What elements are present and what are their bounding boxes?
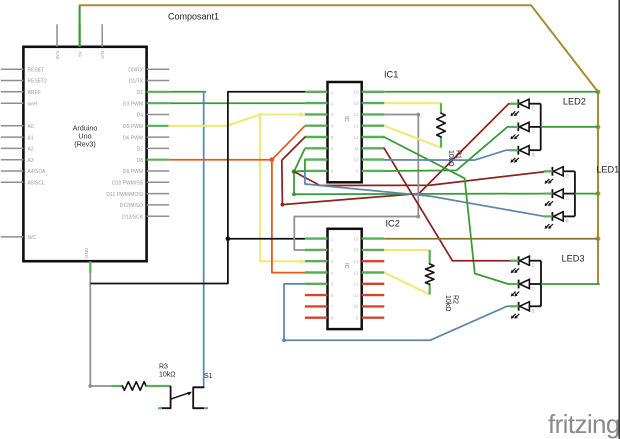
power bus 5V (dark yellow) <box>80 5 598 284</box>
Arduino Uno module U1 (body) <box>23 47 146 261</box>
junction node black at IC2 pin1 row <box>226 236 231 241</box>
wire 5V riser (green) <box>79 6 81 47</box>
svg-text:D2: D2 <box>531 106 535 111</box>
svg-text:fritzing: fritzing <box>548 409 620 439</box>
label Composant1 <box>168 12 219 22</box>
svg-text:14: 14 <box>354 112 359 117</box>
LED3 group LED B0 <box>510 302 541 319</box>
svg-text:A3: A3 <box>28 158 34 164</box>
svg-text:10: 10 <box>354 304 359 309</box>
svg-text:C1: C1 <box>565 196 569 201</box>
wire GND to R3 (grey) <box>90 273 111 387</box>
svg-text:RESET: RESET <box>28 68 45 74</box>
svg-text:C1: C1 <box>531 287 535 292</box>
junction bus-LED2 top row <box>596 90 601 95</box>
svg-text:10kΩ: 10kΩ <box>447 150 454 167</box>
svg-text:15: 15 <box>354 248 359 253</box>
bendpoint maroon <box>281 203 285 207</box>
svg-text:D0/RX: D0/RX <box>128 68 143 74</box>
svg-text:D1/TX: D1/TX <box>129 79 144 85</box>
wire IC1 pin9 to LED2 mid (green) <box>384 127 517 171</box>
svg-text:ioref: ioref <box>28 101 38 107</box>
right image border <box>618 0 620 439</box>
svg-text:10kΩ: 10kΩ <box>159 372 176 379</box>
wire branch to IC2 pin1 (black) <box>228 238 305 240</box>
svg-text:A1: A1 <box>28 135 34 141</box>
svg-text:13: 13 <box>354 124 359 129</box>
op IC1 (16-pin) <box>305 70 398 183</box>
wire IC1 pin5 from maroon riser <box>282 137 305 205</box>
junction node D8 (orange dot) <box>270 157 275 162</box>
wire IC1 pin7/pin8 to node A (green) <box>294 160 305 172</box>
wire D5 PWM to IC1 pin3 (yellow) <box>169 115 305 126</box>
svg-text:D7: D7 <box>137 147 144 153</box>
wire D8 to junction (orange) <box>169 159 272 161</box>
svg-text:R1: R1 <box>455 150 462 159</box>
wire IC1 pin13 to R1 bottom (yellow diagonal) <box>384 126 441 148</box>
svg-text:A5/SCL: A5/SCL <box>28 181 45 187</box>
fritzing watermark <box>548 409 620 439</box>
resistor R1 leads (green) <box>440 103 442 147</box>
wire LED3 mid to bus (green) <box>541 283 600 285</box>
svg-text:10: 10 <box>354 157 359 162</box>
LED3 group LED D2 <box>510 256 541 273</box>
svg-text:13: 13 <box>354 270 359 275</box>
svg-text:LED1: LED1 <box>596 165 619 175</box>
wire junction to IC1 pin4 (orange diagonal) <box>272 126 305 160</box>
wire D3 PWM to IC1 pin2 (green) <box>169 102 305 104</box>
svg-text:(Rev3): (Rev3) <box>74 140 96 149</box>
svg-text:GND: GND <box>84 247 89 258</box>
bendpoint grey 2 <box>416 215 420 219</box>
LED1 group LED B0 <box>544 212 575 229</box>
svg-text:IC1: IC1 <box>384 70 398 80</box>
label S1 <box>204 373 213 380</box>
svg-text:IC: IC <box>343 263 349 268</box>
wire IC1 pin16 to 5V bus (green) <box>384 91 598 93</box>
LED2 group LED D2 <box>510 99 541 116</box>
label LED2 <box>563 97 586 107</box>
Arduino top pins 3V3 / 5V / VIN <box>55 24 105 59</box>
junction bus-LED1 mid <box>596 191 601 196</box>
wire node A to LED1 top (maroon) <box>294 171 554 185</box>
label R2 10k <box>444 295 459 312</box>
wire IC1 pin14 to IC2 pin2 (grey) <box>294 115 418 251</box>
svg-text:15: 15 <box>354 101 359 106</box>
wire IC2 pin5 to LED3 bottom (blue) <box>284 284 517 340</box>
resistor R3 <box>122 382 146 391</box>
svg-text:A4/SDA: A4/SDA <box>28 169 46 175</box>
wire node A to LED1 bottom (blue) <box>305 171 554 216</box>
svg-text:AREF: AREF <box>28 90 41 96</box>
wire R3 left lead (green) <box>112 385 123 387</box>
svg-text:B0: B0 <box>531 309 535 313</box>
LED2 group LED B0 <box>510 146 541 163</box>
wire IC2 pin15 to R2 top (yellow) <box>384 249 429 251</box>
LED3 group common anode bar <box>540 261 542 307</box>
LED2 group LED C1 <box>510 122 541 139</box>
svg-text:LED3: LED3 <box>562 254 585 264</box>
bendpoint GND corner <box>88 384 92 388</box>
svg-text:D3 PWM: D3 PWM <box>123 101 143 107</box>
wire D2 node to switch S1 (blue vertical) <box>193 92 203 388</box>
LED3 group LED C1 <box>510 279 541 296</box>
wire IC1 pin11 to LED3 top (maroon diagonal) <box>384 148 517 260</box>
bendpoint yellow node <box>258 113 262 117</box>
wire GND to IC1 pin1 / IC2 pin1 (black) <box>91 92 305 284</box>
svg-text:5V: 5V <box>78 50 83 57</box>
wire IC2 pin16 to bus (dark yellow) <box>384 238 598 240</box>
wire IC1 pin6 to node A (green diagonal) <box>294 148 305 171</box>
wire junction to IC2 pin4 (orange) <box>272 160 305 273</box>
svg-text:D8: D8 <box>137 158 144 164</box>
svg-text:10kΩ: 10kΩ <box>444 295 451 312</box>
wire IC1 pin10 to LED2 bottom (blue) <box>384 150 517 160</box>
svg-text:RESET2: RESET2 <box>28 79 48 85</box>
LED1 group LED D2 <box>544 167 575 184</box>
wire node to IC2 pin3 (yellow vertical) <box>260 115 305 262</box>
switch S1 right contact <box>193 387 204 408</box>
resistor R2 <box>425 264 434 284</box>
svg-text:IC: IC <box>343 116 349 121</box>
wire node A to LED1 mid (green) <box>294 172 553 195</box>
svg-text:N/C: N/C <box>28 235 37 241</box>
svg-text:3V3: 3V3 <box>55 51 60 60</box>
Arduino left pins (unconnected stubs + labels) <box>1 68 47 242</box>
svg-text:D6 PWM: D6 PWM <box>123 135 143 141</box>
Arduino right pins D0-D13 (stubs + labels) <box>106 68 169 221</box>
yellow wire arrowhead at IC1 pin3 <box>300 112 306 117</box>
Arduino GND pin (bottom) <box>84 247 90 272</box>
svg-text:LED2: LED2 <box>563 97 586 107</box>
resistor R2 leads (green) <box>429 250 431 295</box>
wire LED2 mid to bus (green) <box>541 126 598 128</box>
svg-text:D4: D4 <box>137 113 144 119</box>
svg-text:11: 11 <box>354 146 359 151</box>
IC2 (16-pin) <box>305 219 400 330</box>
node A (green junction) <box>292 169 297 174</box>
switch S1 left contact <box>160 387 170 409</box>
svg-text:Composant1: Composant1 <box>168 12 219 22</box>
bendpoint blue <box>282 338 286 342</box>
resistor R1 <box>437 113 446 137</box>
svg-text:D10 PWM/SS: D10 PWM/SS <box>112 181 144 187</box>
svg-text:D12/MISO: D12/MISO <box>120 203 143 209</box>
svg-text:12: 12 <box>354 135 359 140</box>
LED1 group LED C1 <box>544 189 575 206</box>
svg-text:14: 14 <box>354 259 359 264</box>
svg-text:16: 16 <box>354 236 359 241</box>
wire IC2 pin13 to R2 bottom (yellow diagonal) <box>384 273 429 295</box>
svg-text:D2: D2 <box>565 174 569 179</box>
svg-text:IC2: IC2 <box>386 219 400 229</box>
wire IC1 pin12 to LED3 mid (green long diagonal) <box>384 137 517 284</box>
svg-text:S1: S1 <box>204 373 213 380</box>
LED1 group common anode bar <box>574 171 576 216</box>
svg-text:16: 16 <box>354 90 359 95</box>
svg-text:12: 12 <box>354 282 359 287</box>
junction bus-IC2 pin16 <box>596 236 601 241</box>
label LED3 <box>562 254 585 264</box>
svg-text:D9 PWM: D9 PWM <box>123 169 143 175</box>
label LED1 <box>596 165 619 175</box>
wire D2 to node (green) <box>169 91 206 93</box>
svg-text:11: 11 <box>354 293 359 298</box>
wire IC1 pin15 to R1 top (yellow) <box>384 102 441 104</box>
svg-text:A0: A0 <box>28 124 34 130</box>
wire LED1 mid to bus (green) <box>575 193 598 195</box>
bendpoint green <box>292 192 296 196</box>
wire maroon to LED2 top <box>282 104 517 205</box>
svg-text:B0: B0 <box>531 153 535 157</box>
junction bus-LED2 mid <box>596 125 601 130</box>
svg-text:B0: B0 <box>565 219 569 223</box>
svg-text:R3: R3 <box>159 364 168 371</box>
switch S1 terminal stubs (green) <box>158 407 208 409</box>
svg-text:D2: D2 <box>137 90 144 96</box>
svg-text:D2: D2 <box>531 263 535 268</box>
label R1 10k <box>447 150 462 167</box>
yellow wire arrowhead at IC2 pin3 <box>300 259 306 264</box>
svg-text:D5 PWM: D5 PWM <box>123 124 143 130</box>
svg-text:VIN: VIN <box>100 51 105 59</box>
wire R3 right to S1 (green) <box>146 385 171 387</box>
svg-text:D11 PWM/MOSI: D11 PWM/MOSI <box>106 192 143 198</box>
svg-text:D13/SCK: D13/SCK <box>122 214 144 220</box>
label R3 10k <box>159 364 176 379</box>
bendpoint grey 1 <box>416 113 420 117</box>
LED2 group common anode bar <box>540 104 542 151</box>
svg-text:R2: R2 <box>452 295 459 304</box>
svg-text:A2: A2 <box>28 147 34 153</box>
svg-text:C1: C1 <box>531 129 535 134</box>
switch S1 lever <box>171 392 192 399</box>
